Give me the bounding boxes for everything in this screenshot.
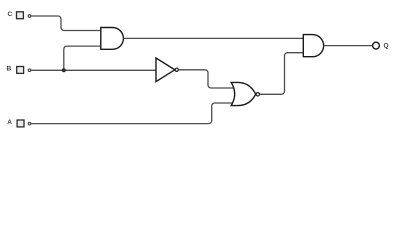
wire B to NOT input: [31, 69, 156, 71]
wire AND2 output to Q: [324, 45, 372, 47]
wire AND1 output to AND2 top input: [123, 37, 303, 39]
AND gate U4 (output stage): [303, 35, 323, 57]
input A pin circle: [28, 122, 31, 125]
svg-text:Q: Q: [383, 42, 388, 49]
NOT gate U2 triangle: [156, 58, 175, 82]
NOR gate U3 bubble: [256, 93, 259, 96]
svg-text:B: B: [6, 66, 11, 73]
wire junction B branch up to AND1 bottom input: [64, 46, 101, 70]
output Q pin circle: [373, 42, 380, 49]
input B switch box: [17, 67, 24, 74]
wire C to AND1 top input: [31, 16, 101, 31]
AND gate U1: [101, 28, 124, 50]
NOT gate U2 bubble: [175, 68, 178, 71]
svg-text:A: A: [7, 119, 12, 126]
input C pin circle: [28, 15, 31, 18]
wire NOT output to NOR top input: [179, 70, 234, 88]
junction dot on B wire: [62, 68, 66, 72]
input B pin circle: [28, 69, 31, 72]
wire NOR output to AND2 bottom input: [260, 53, 304, 95]
input A switch box: [17, 120, 24, 127]
wire A to NOR bottom input: [31, 103, 234, 124]
input C switch box: [17, 12, 24, 19]
svg-text:C: C: [8, 11, 13, 18]
NOR gate U3 body: [231, 82, 256, 105]
